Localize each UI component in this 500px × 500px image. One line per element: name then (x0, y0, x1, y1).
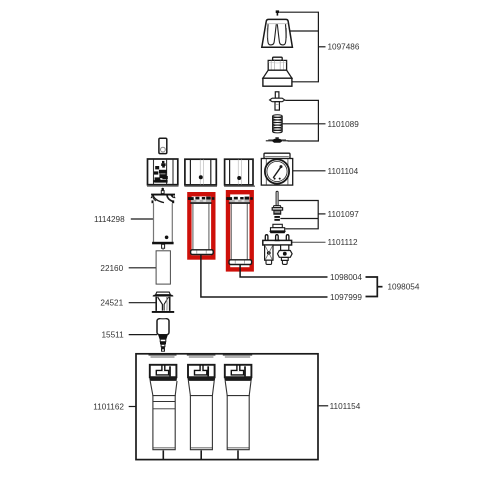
inlet valve 15511 (157, 319, 169, 351)
cartridge 3 lid bar (223, 354, 252, 357)
filter head 2 (185, 159, 216, 185)
manifold 1101112 (263, 235, 292, 265)
leader 1101112 (292, 241, 326, 243)
svg-text:1101162: 1101162 (93, 403, 124, 412)
leader bracket 1101097 (279, 201, 326, 229)
leader 1101162 (129, 406, 136, 408)
svg-text:22160: 22160 (100, 264, 123, 273)
small clip part above head 1 (159, 138, 167, 153)
seat cap 1101097 (269, 224, 286, 233)
cartridge 1 lid bar (149, 354, 177, 357)
seal square 1101097 (274, 216, 280, 221)
leader 1101104 (290, 170, 326, 172)
bracket 1098054 (366, 277, 383, 297)
svg-text:1101097: 1101097 (328, 210, 360, 219)
svg-text:1098054: 1098054 (388, 283, 420, 292)
venturi 24521 (152, 292, 174, 313)
adjusting pin 1101097 (272, 191, 282, 214)
red highlight box 1 (1097999) (189, 194, 213, 257)
gray shadow under head 1 (147, 185, 179, 187)
cartridge 1 (149, 365, 177, 459)
filter head 1 (148, 159, 178, 185)
leader 22160 (129, 267, 156, 269)
leader bracket 1097486 (279, 12, 325, 82)
leader bracket 1101089 (283, 100, 326, 141)
leader 24521 (129, 302, 156, 304)
leader 1097999 (201, 255, 328, 297)
screw for knob 1097486 (276, 10, 279, 15)
spacer tube 22160 (156, 251, 170, 284)
leader 1098004 (240, 265, 327, 277)
cartridge 2 lid bar (187, 354, 216, 357)
filter sump 2 (1098004) (226, 197, 253, 265)
diaphragm disc 1101089 (266, 137, 289, 143)
filter head 3 (225, 159, 253, 185)
spring 1101089 (273, 115, 283, 133)
cartridge 3 (224, 365, 252, 459)
leader 1114298 (131, 218, 154, 220)
bonnet cap 1097486 (263, 57, 292, 86)
svg-text:1101112: 1101112 (328, 238, 358, 247)
gauge 1101104 (261, 153, 292, 185)
leader 1101154 (318, 405, 328, 407)
gray shadow under head 2 (184, 185, 217, 187)
knob 1097486 (262, 19, 293, 47)
red highlight box 2 (1098004) (228, 192, 252, 269)
svg-text:1101104: 1101104 (328, 167, 359, 176)
filter sump 1 (1097999) (188, 197, 215, 255)
svg-text:1114298: 1114298 (94, 215, 125, 224)
svg-text:1097486: 1097486 (328, 43, 360, 52)
bottom bracket rectangle 1101154 (136, 354, 318, 460)
gray shadow under head 3 (224, 185, 255, 187)
svg-text:1098004: 1098004 (330, 273, 362, 282)
canister 1114298 (151, 188, 176, 250)
svg-text:1101154: 1101154 (330, 402, 361, 411)
leader 15511 (129, 334, 157, 336)
svg-text:24521: 24521 (100, 299, 123, 308)
poppet valve stem 1101089 (270, 92, 285, 110)
svg-text:15511: 15511 (102, 331, 125, 340)
svg-text:1097999: 1097999 (330, 293, 362, 302)
svg-text:1101089: 1101089 (328, 120, 360, 129)
cartridge 2 (188, 365, 216, 459)
